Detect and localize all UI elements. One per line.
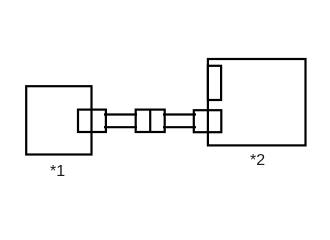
svg-text:*1: *1 [50, 163, 65, 180]
svg-text:*2: *2 [250, 152, 265, 169]
